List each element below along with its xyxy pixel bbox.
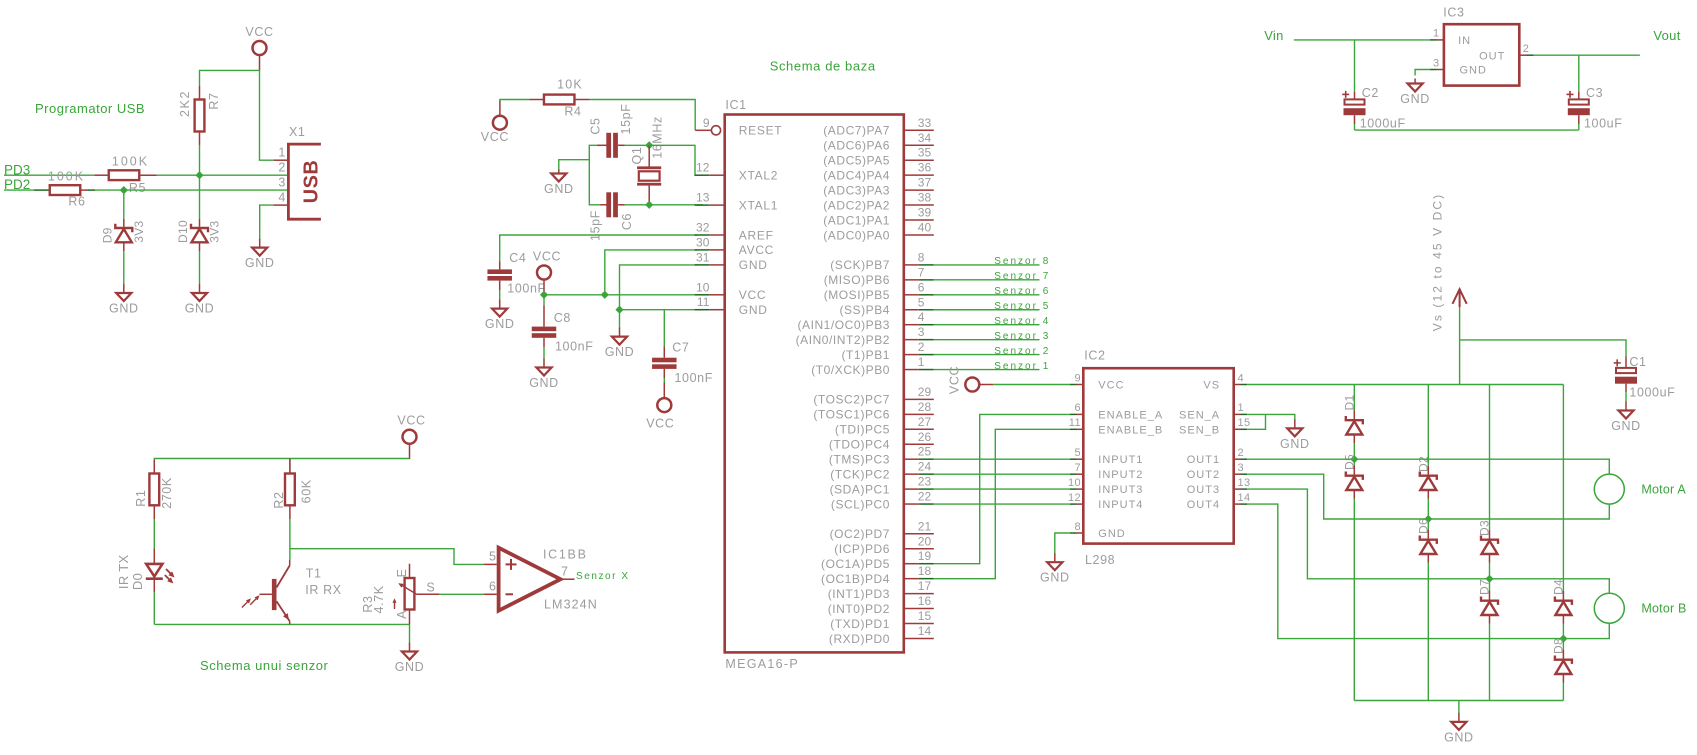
pin 39 (ADC1)PA1 of IC1 (823, 206, 934, 228)
svg-text:1000uF: 1000uF (1629, 386, 1675, 400)
svg-text:7: 7 (918, 265, 925, 279)
pin 2 OUT1 of IC2 (1187, 447, 1247, 466)
diode D3 (1481, 530, 1498, 563)
svg-text:4.7K: 4.7K (372, 585, 386, 613)
svg-text:100K: 100K (48, 170, 85, 184)
wire GND net to ground (619, 310, 621, 328)
wire PD4 to ENABLE_B (934, 429, 1070, 578)
svg-text:13: 13 (696, 191, 710, 205)
svg-text:15pF: 15pF (619, 104, 633, 135)
junction node OUT1/D1/D5 (1350, 455, 1358, 463)
svg-text:OUT2: OUT2 (1187, 469, 1220, 481)
svg-text:IC2: IC2 (1084, 349, 1105, 363)
ground symbol sensor (395, 643, 425, 675)
svg-text:IR RX: IR RX (305, 583, 341, 597)
wire PC2 to INPUT2 (934, 473, 1070, 475)
capacitor C5 (597, 133, 625, 158)
pin 5 INPUT1 of IC2 (1070, 447, 1144, 466)
svg-text:D6: D6 (1416, 518, 1430, 534)
wire net PD2 (4, 189, 34, 191)
wire VCC net to R7 column (200, 70, 274, 160)
svg-text:GND: GND (544, 182, 574, 196)
svg-text:VCC: VCC (245, 25, 273, 39)
wire Vin branch to C2 (1354, 40, 1356, 92)
pin 13 OUT3 of IC2 (1187, 477, 1251, 496)
pin 3 GND of IC3 (1430, 57, 1487, 76)
power symbol VCC (below C7) (646, 383, 674, 431)
capacitor C2 polarized (1342, 91, 1365, 124)
pin 35 (ADC5)PA5 of IC1 (823, 146, 934, 168)
wire SEN_B joins SEN_A (1247, 414, 1265, 429)
svg-text:R1: R1 (134, 490, 148, 507)
wire R2 to collector (289, 519, 291, 560)
wire junction to D9 (123, 190, 125, 219)
svg-text:(T0/XCK)PB0: (T0/XCK)PB0 (811, 363, 890, 377)
wire D6 to gnd rail (1427, 563, 1429, 701)
wire R2 top (289, 459, 291, 474)
wire R5 to junction (157, 174, 200, 176)
wire VCC to R4 (500, 100, 530, 102)
svg-text:C2: C2 (1362, 86, 1379, 100)
motor MOTOR B (1594, 593, 1624, 623)
power symbol VCC (sensor) (397, 414, 425, 460)
svg-text:S: S (426, 581, 435, 595)
wire rail to ground (1458, 701, 1460, 714)
wire node to XTAL1 pin (649, 204, 703, 206)
ground symbol under D10 (185, 284, 215, 316)
ground symbol motor rail (1444, 713, 1474, 745)
wire PD2 junction to USB pin 3 (124, 189, 289, 191)
wire PD3 junction to USB pin 2 (200, 174, 289, 176)
wire branch to C1 (1460, 340, 1626, 357)
svg-text:1: 1 (918, 355, 925, 369)
motor MOTOR A (1594, 474, 1624, 504)
svg-text:Vin: Vin (1264, 28, 1283, 43)
svg-text:100nF: 100nF (555, 340, 593, 354)
svg-text:GND: GND (485, 317, 515, 331)
svg-text:SEN_A: SEN_A (1179, 409, 1220, 421)
power symbol VCC (programmer) (245, 25, 273, 71)
pin 2 (T1)PB1 of IC1 (841, 340, 933, 362)
crystal Q1 (637, 145, 661, 205)
svg-text:(TXD)PD1: (TXD)PD1 (830, 617, 890, 631)
svg-text:(ADC2)PA2: (ADC2)PA2 (823, 198, 890, 212)
pin 23 (SDA)PC1 of IC1 (830, 475, 934, 497)
svg-text:RESET: RESET (739, 124, 783, 138)
wire cap ground rail (1355, 129, 1579, 131)
ground symbol (mcu gnd) (605, 328, 635, 360)
pin 12 INPUT4 of IC2 (1068, 492, 1143, 511)
svg-text:INPUT1: INPUT1 (1098, 454, 1143, 466)
wire net Senzor 2 (934, 354, 1040, 356)
svg-text:3: 3 (1238, 462, 1245, 474)
svg-text:4: 4 (278, 191, 285, 205)
svg-text:D3: D3 (1478, 520, 1492, 536)
wire junction to D10 (199, 175, 201, 219)
capacitor C1 polarized (1614, 357, 1637, 393)
svg-text:(SCK)PB7: (SCK)PB7 (830, 258, 890, 272)
transistor T1 IR RX (260, 560, 290, 624)
svg-text:(ADC4)PA4: (ADC4)PA4 (823, 168, 890, 182)
diode D5 (1346, 459, 1363, 498)
svg-text:9: 9 (703, 116, 710, 130)
wire R4 to RESET pin (590, 100, 695, 131)
svg-text:100nF: 100nF (675, 371, 713, 385)
junction node PD2/D9 (120, 186, 128, 194)
svg-text:ENABLE_A: ENABLE_A (1098, 409, 1163, 421)
pin 14 OUT4 of IC2 (1187, 492, 1251, 511)
junction node AVCC branch (601, 291, 609, 299)
svg-text:40: 40 (918, 220, 932, 234)
wire net Senzor 7 (934, 279, 1040, 281)
svg-text:12: 12 (696, 161, 710, 175)
svg-text:(TOSC1)PC6: (TOSC1)PC6 (813, 408, 890, 422)
svg-text:C1: C1 (1629, 355, 1646, 369)
svg-text:(RXD)PD0: (RXD)PD0 (829, 632, 890, 646)
svg-text:8: 8 (1074, 521, 1081, 533)
svg-text:(MISO)PB6: (MISO)PB6 (824, 273, 890, 287)
wire Vout branch to C3 (1578, 55, 1580, 92)
svg-text:(TOSC2)PC7: (TOSC2)PC7 (813, 393, 890, 407)
svg-text:USB: USB (301, 160, 323, 204)
svg-text:100uF: 100uF (1584, 117, 1622, 131)
svg-text:2: 2 (278, 161, 285, 175)
svg-text:1000uF: 1000uF (1360, 117, 1406, 131)
svg-text:21: 21 (918, 519, 932, 533)
svg-text:Vs (12 to 45 V DC): Vs (12 to 45 V DC) (1430, 193, 1444, 332)
wire C6 to node XTAL1 (625, 204, 650, 206)
svg-text:28: 28 (918, 400, 932, 414)
wire node to XTAL2 pin (649, 145, 703, 175)
svg-text:R2: R2 (272, 491, 286, 508)
svg-text:16: 16 (918, 594, 932, 608)
svg-text:OUT: OUT (1479, 51, 1505, 63)
svg-text:(INT1)PD3: (INT1)PD3 (828, 587, 890, 601)
svg-text:XTAL1: XTAL1 (739, 198, 778, 212)
wire C7 to VCC (663, 378, 665, 383)
svg-text:26: 26 (918, 430, 932, 444)
pin 12 XTAL2 of IC1 (695, 161, 778, 183)
op-amp IC1BB (484, 548, 575, 611)
svg-text:4: 4 (918, 310, 925, 324)
svg-text:Programator USB: Programator USB (35, 101, 145, 116)
svg-text:XTAL2: XTAL2 (739, 169, 778, 183)
wire net Senzor 4 (934, 324, 1040, 326)
svg-text:R4: R4 (564, 105, 581, 119)
wire D10 to ground (199, 251, 201, 284)
svg-text:5: 5 (1074, 447, 1081, 459)
pin 4 (AIN1/OC0)PB3 of IC1 (797, 310, 933, 332)
wire PC1 to INPUT3 (934, 488, 1070, 490)
svg-text:38: 38 (918, 191, 932, 205)
svg-text:(ADC3)PA3: (ADC3)PA3 (823, 183, 890, 197)
wire AREF net (500, 235, 697, 262)
svg-text:36: 36 (918, 161, 932, 175)
pin 33 (ADC7)PA7 of IC1 (823, 116, 934, 138)
svg-text:INPUT4: INPUT4 (1098, 499, 1143, 511)
wire D3 to OUT3 net (1489, 563, 1491, 579)
wire D7 to gnd rail (1489, 624, 1491, 701)
pin 1 (T0/XCK)PB0 of IC1 (811, 355, 934, 377)
svg-text:D7: D7 (1478, 579, 1492, 595)
svg-text:AREF: AREF (739, 228, 774, 242)
svg-text:(AIN1/OC0)PB3: (AIN1/OC0)PB3 (797, 318, 890, 332)
wire Vs arrow to VS net (1459, 307, 1461, 385)
svg-text:3V3: 3V3 (132, 220, 146, 242)
pin 7 INPUT2 of IC2 (1070, 462, 1144, 481)
svg-text:(ADC5)PA5: (ADC5)PA5 (823, 154, 890, 168)
svg-text:GND: GND (1444, 730, 1474, 744)
ground symbol under IC2 (1040, 553, 1070, 585)
wire VCC to IC2 pin 9 (993, 384, 1070, 386)
svg-text:(ADC1)PA1: (ADC1)PA1 (823, 213, 890, 227)
svg-text:GND: GND (1040, 571, 1070, 585)
resistor R6 (34, 185, 95, 195)
wire D8 to gnd rail (1562, 683, 1564, 701)
svg-text:VCC: VCC (481, 130, 509, 144)
pin 14 (RXD)PD0 of IC1 (829, 624, 934, 646)
potentiometer R3 (395, 564, 440, 625)
pin 29 (TOSC2)PC7 of IC1 (813, 385, 933, 407)
svg-text:8: 8 (918, 250, 925, 264)
junction node PD3/R7/D10 (195, 171, 203, 179)
svg-text:3: 3 (278, 176, 285, 190)
wire X1 pin 4 to ground (260, 205, 274, 239)
svg-text:D8: D8 (1552, 638, 1566, 654)
svg-text:GND: GND (1280, 437, 1310, 451)
wire PC0 to INPUT4 (934, 503, 1070, 505)
diode D2 (1420, 466, 1437, 499)
svg-text:15pF: 15pF (589, 210, 603, 241)
pin 30 AVCC of IC1 (695, 235, 774, 257)
power symbol VCC (reset) (481, 100, 509, 144)
svg-text:32: 32 (696, 221, 710, 235)
svg-text:15: 15 (918, 609, 932, 623)
zener diode D10 (191, 219, 208, 251)
wire motor gnd rail (1354, 700, 1563, 702)
svg-text:(T1)PB1: (T1)PB1 (841, 348, 890, 362)
ground symbol (sense) (1280, 419, 1310, 451)
svg-text:AVCC: AVCC (739, 243, 774, 257)
svg-text:2K2: 2K2 (178, 90, 192, 117)
svg-text:E: E (395, 569, 409, 578)
pin 21 (OC2)PD7 of IC1 (830, 519, 934, 541)
pin 10 VCC of IC1 (695, 280, 767, 302)
wire D2 to OUT2 net (1427, 499, 1429, 520)
wire VS net (1247, 384, 1563, 386)
pin 20 (ICP)PD6 of IC1 (834, 534, 934, 556)
pin 4 VS of IC2 (1203, 372, 1247, 391)
svg-text:(SCL)PC0: (SCL)PC0 (831, 497, 890, 511)
pin 17 (INT1)PD3 of IC1 (828, 579, 934, 601)
svg-text:SEN_B: SEN_B (1179, 424, 1220, 436)
svg-text:GND: GND (1400, 92, 1430, 106)
svg-text:C4: C4 (509, 251, 526, 265)
wire Vin net (1294, 39, 1430, 41)
svg-text:19: 19 (918, 549, 932, 563)
svg-text:IN: IN (1458, 35, 1471, 47)
junction node GND net (615, 306, 623, 314)
svg-text:Motor A: Motor A (1641, 483, 1686, 497)
svg-text:A: A (395, 610, 409, 619)
svg-text:MEGA16-P: MEGA16-P (725, 657, 799, 671)
svg-text:17: 17 (918, 579, 932, 593)
wire sensor top net (154, 459, 409, 474)
wire collector branch to opamp (290, 549, 484, 565)
svg-text:Senzor 5: Senzor 5 (994, 301, 1050, 312)
svg-text:1: 1 (1238, 402, 1245, 414)
pin 13 XTAL1 of IC1 (695, 191, 778, 213)
svg-text:(ADC0)PA0: (ADC0)PA0 (823, 228, 890, 242)
power symbol VCC (mcu) (533, 249, 561, 295)
svg-text:GND: GND (605, 345, 635, 359)
svg-text:7: 7 (1074, 462, 1081, 474)
pin 3 (AIN0/INT2)PB2 of IC1 (796, 325, 934, 347)
ic IC1 MEGA16-P body (725, 115, 904, 653)
svg-text:13: 13 (1238, 477, 1251, 489)
pin 19 (OC1A)PD5 of IC1 (821, 549, 934, 571)
svg-text:Senzor X: Senzor X (576, 571, 630, 582)
svg-text:GND: GND (1098, 528, 1125, 540)
pin 15 SEN_B of IC2 (1179, 417, 1251, 436)
svg-text:GND: GND (1611, 419, 1641, 433)
svg-text:14: 14 (918, 624, 932, 638)
svg-text:Vout: Vout (1653, 28, 1680, 43)
svg-text:C3: C3 (1586, 86, 1603, 100)
wire C3 to rail (1578, 124, 1580, 130)
svg-text:Schema de baza: Schema de baza (770, 59, 876, 74)
capacitor C8 (532, 295, 557, 347)
svg-text:GND: GND (245, 256, 275, 270)
wire net Senzor 8 (934, 264, 1040, 266)
diode D1 (1346, 411, 1363, 444)
wire pot S to opamp (439, 593, 483, 595)
svg-text:(TCK)PC2: (TCK)PC2 (830, 467, 890, 481)
capacitor C7 (652, 310, 677, 378)
pin 8 (SCK)PB7 of IC1 (830, 250, 934, 272)
svg-text:(TMS)PC3: (TMS)PC3 (829, 453, 890, 467)
svg-text:X1: X1 (289, 125, 306, 139)
svg-text:(INT0)PD2: (INT0)PD2 (828, 602, 890, 616)
svg-text:24: 24 (918, 460, 932, 474)
pin 10 INPUT3 of IC2 (1068, 477, 1143, 496)
svg-text:3: 3 (918, 325, 925, 339)
svg-text:25: 25 (918, 445, 932, 459)
wire OUT2 net (1247, 474, 1609, 519)
svg-text:39: 39 (918, 206, 932, 220)
wire column D3 top (1489, 385, 1491, 531)
resistor R4 (530, 95, 590, 105)
ground symbol under C1 (1611, 402, 1641, 434)
svg-text:IC1: IC1 (725, 98, 746, 112)
resistor R5 (94, 170, 156, 180)
svg-text:D2: D2 (1416, 456, 1430, 472)
svg-text:11: 11 (1069, 417, 1081, 429)
svg-text:GND: GND (395, 660, 425, 674)
svg-text:LM324N: LM324N (544, 598, 598, 612)
svg-text:20: 20 (918, 534, 932, 548)
svg-text:2: 2 (918, 340, 925, 354)
svg-text:1: 1 (278, 146, 285, 160)
svg-text:5: 5 (918, 295, 925, 309)
photo arrows of T1 (242, 597, 258, 608)
pin 38 (ADC2)PA2 of IC1 (823, 191, 934, 213)
svg-text:ENABLE_B: ENABLE_B (1098, 424, 1163, 436)
ground symbol under IC3 (1400, 79, 1430, 107)
svg-text:15: 15 (1238, 417, 1251, 429)
ic IC2 L298 body (1083, 368, 1233, 543)
wire C8 to ground (543, 347, 545, 359)
wire VCC net to pin 10 (544, 294, 697, 296)
svg-text:(AIN0/INT2)PB2: (AIN0/INT2)PB2 (796, 333, 890, 347)
svg-text:23: 23 (918, 475, 932, 489)
svg-text:60K: 60K (300, 479, 314, 503)
wire GND pin 31 branch (620, 265, 697, 310)
resistor R1 (149, 460, 159, 519)
svg-text:D4: D4 (1552, 579, 1566, 595)
svg-text:37: 37 (918, 176, 932, 190)
svg-text:(ADC7)PA7: (ADC7)PA7 (823, 124, 890, 138)
svg-text:VS: VS (1203, 380, 1220, 392)
svg-text:270K: 270K (160, 477, 174, 509)
pin 1 of X1 (274, 159, 289, 161)
pin 1 IN of IC3 (1430, 28, 1471, 48)
wire D4 to OUT4 net (1562, 624, 1564, 639)
wire IC3 GND to ground (1415, 70, 1430, 76)
wire D5 to gnd rail (1353, 499, 1355, 701)
diode D6 (1420, 519, 1437, 563)
pin 11 ENABLE_B of IC2 (1069, 417, 1163, 436)
ground symbol under C4 (485, 300, 515, 332)
svg-text:Senzor 7: Senzor 7 (994, 271, 1050, 282)
svg-text:VCC: VCC (739, 288, 766, 302)
capacitor C3 polarized (1567, 91, 1590, 124)
svg-text:(SDA)PC1: (SDA)PC1 (830, 482, 890, 496)
pin 2 OUT of IC3 (1479, 43, 1534, 63)
diode D8 (1555, 639, 1572, 683)
svg-text:(ICP)PD6: (ICP)PD6 (834, 542, 890, 556)
svg-text:VCC: VCC (533, 249, 561, 263)
led D0 (146, 549, 173, 593)
ground symbol under X1 (245, 239, 275, 271)
svg-text:31: 31 (696, 250, 710, 264)
pin 6 ENABLE_A of IC2 (1070, 402, 1163, 421)
capacitor C4 (487, 262, 512, 291)
svg-text:Q1: Q1 (630, 147, 644, 165)
svg-text:R7: R7 (207, 92, 221, 109)
svg-text:27: 27 (918, 415, 932, 429)
resistor R7 (195, 86, 205, 145)
pin 9 VCC of IC2 (1070, 372, 1125, 391)
svg-text:2: 2 (1523, 43, 1530, 55)
svg-text:VCC: VCC (646, 416, 674, 430)
pin 4 of X1 (274, 204, 289, 206)
wire column D1 top (1353, 385, 1355, 411)
svg-text:14: 14 (1238, 492, 1251, 504)
svg-text:33: 33 (918, 116, 932, 130)
svg-text:GND: GND (1460, 65, 1487, 77)
svg-text:OUT3: OUT3 (1187, 484, 1220, 496)
svg-text:GND: GND (529, 376, 559, 390)
svg-text:(TDI)PC5: (TDI)PC5 (835, 423, 890, 437)
wire net Senzor 6 (934, 294, 1040, 296)
pin 28 (TOSC1)PC6 of IC1 (813, 400, 933, 422)
svg-text:Senzor 4: Senzor 4 (994, 316, 1050, 327)
svg-text:Senzor 3: Senzor 3 (994, 331, 1050, 342)
wire C1 to ground (1625, 392, 1627, 402)
pin 11 GND of IC1 (695, 295, 768, 317)
ground symbol under D9 (109, 284, 139, 316)
